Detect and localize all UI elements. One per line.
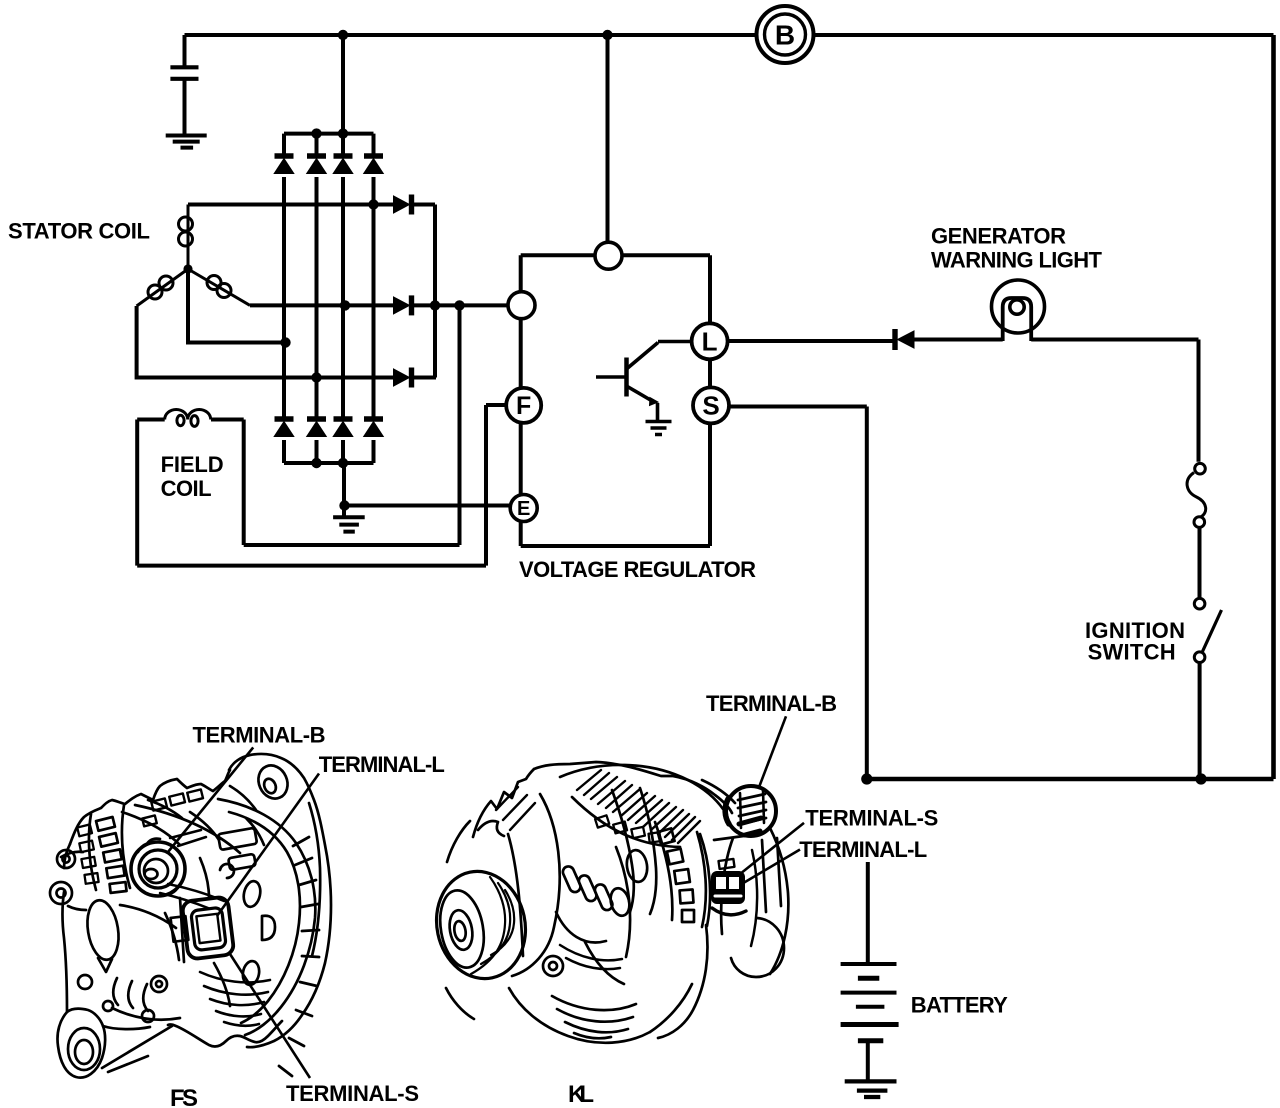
svg-text:S: S (702, 391, 719, 421)
svg-text:COIL: COIL (161, 476, 212, 501)
fs mounting ear hole (253, 761, 292, 803)
stator coil phase3 winding (right) (188, 269, 250, 305)
kl lower right lobe (731, 918, 784, 977)
svg-text:STATOR COIL: STATOR COIL (8, 219, 150, 244)
fs mid slot ladder (151, 798, 167, 810)
fs lower-left foot (57, 1009, 105, 1078)
wire rectifier vertical 4 (372, 134, 376, 463)
FS alternator drawing (50, 754, 331, 1078)
fs left bosses (57, 850, 75, 868)
wire rectifier ground stem (342, 463, 346, 516)
kl top outline (534, 762, 732, 813)
terminal B (double circle) (757, 6, 814, 63)
kl bracket arcs behind pulley (446, 821, 474, 1019)
wire rectifier bottom rail (284, 461, 374, 465)
leader line TERMINAL-L (KL) (718, 850, 800, 899)
wire v3 riser to top rail (341, 35, 345, 134)
svg-text:GENERATOR: GENERATOR (931, 224, 1066, 249)
svg-text:L: L (702, 327, 718, 357)
generator warning lamp (992, 280, 1045, 341)
node junction circle (rectifier output) (508, 292, 535, 319)
ground (battery) (845, 1081, 897, 1097)
wire E terminal to ground (345, 504, 511, 508)
KL alternator drawing (427, 762, 789, 1043)
kl stator band ladder (577, 770, 700, 843)
wire rectifier top rail (284, 132, 374, 136)
wire output node drop to field coil (244, 305, 460, 545)
diode D6 (307, 416, 326, 421)
svg-text:F: F (516, 392, 531, 420)
kl pulley (427, 863, 536, 987)
stator coil phase2 winding (left) (137, 269, 188, 306)
wire fuse to switch (1198, 527, 1202, 598)
kl terminal-B stud (726, 786, 776, 836)
field coil winding (165, 410, 211, 427)
ground (capacitor) (166, 136, 207, 148)
fs left bracket edge (63, 844, 71, 1012)
diode D4 (364, 153, 383, 158)
diode D7 (334, 416, 353, 421)
fs outer housing outline (70, 770, 230, 844)
wire stator phase1 to diode (188, 203, 393, 207)
fusible link (1187, 463, 1206, 527)
wire S terminal run (729, 407, 867, 780)
wire regulator node riser (606, 35, 610, 243)
fs lower right vents (241, 880, 262, 909)
leader line TERMINAL-B (KL) (759, 716, 786, 786)
fs rear vent slots (218, 828, 257, 850)
fs rear seam arcs (122, 805, 240, 853)
svg-text:TERMINAL-L: TERMINAL-L (319, 752, 445, 777)
svg-text:WARNING LIGHT: WARNING LIGHT (931, 248, 1103, 273)
kl middle window band (655, 822, 706, 927)
node junction circle (top of regulator) (595, 242, 622, 269)
wire diode to lamp (914, 338, 1003, 342)
ground (transistor emitter) (646, 422, 672, 435)
wire capacitor drop (183, 35, 187, 68)
svg-text:TERMINAL-B: TERMINAL-B (193, 723, 326, 748)
wire right rail (1271, 35, 1276, 779)
terminal E (510, 495, 537, 522)
diode D2 (307, 153, 326, 158)
fs lower curls (113, 978, 148, 1011)
kl front bracket face (512, 794, 560, 976)
kl stator lamination rects (595, 815, 609, 827)
fs terminal-B boss (131, 842, 185, 896)
voltage regulator box (521, 255, 710, 546)
fs rim band arcs (218, 799, 315, 1035)
leader line TERMINAL-S (KL) (725, 823, 804, 886)
svg-text:TERMINAL-L: TERMINAL-L (799, 837, 927, 862)
wire field coil box top and right (137, 420, 244, 546)
kl center arm (612, 790, 634, 912)
kl rear bracket right (770, 828, 788, 974)
fs front lobe (83, 898, 122, 962)
svg-text:BATTERY: BATTERY (911, 992, 1008, 1017)
wire capacitor to ground (183, 79, 187, 136)
svg-text:FS: FS (170, 1085, 198, 1108)
wire stator phase3 run (137, 306, 393, 378)
wire stator center tap (188, 269, 286, 343)
wire rectifier vertical 3 (341, 134, 345, 463)
wire rectifier output bus (433, 205, 437, 378)
wire battery to ground stub (866, 1041, 870, 1081)
fs window band (89, 805, 130, 890)
svg-text:FIELD: FIELD (161, 452, 224, 477)
leader line TERMINAL-S (FS) (230, 954, 310, 1078)
leader line TERMINAL-B (FS) (168, 747, 253, 852)
wire lamp to ignition corner (1031, 340, 1198, 462)
svg-text:TERMINAL-S: TERMINAL-S (805, 805, 938, 830)
kl bottom fins (552, 996, 636, 1038)
fs connector socket (182, 896, 235, 959)
transistor Q1 (596, 342, 692, 421)
ignition switch (1194, 598, 1221, 662)
terminal L (692, 323, 728, 359)
terminal S (693, 387, 729, 423)
svg-text:B: B (775, 20, 795, 51)
svg-text:TERMINAL-S: TERMINAL-S (286, 1081, 419, 1106)
wire bottom horizontal to battery node (867, 777, 1274, 781)
capacitor C1 (170, 67, 198, 79)
wire battery top lead (866, 862, 870, 964)
svg-text:VOLTAGE REGULATOR: VOLTAGE REGULATOR (519, 557, 756, 582)
fs misc strokes (165, 898, 230, 1006)
kl bottom outline (509, 988, 650, 1043)
wire rectifier vertical 2 (315, 134, 319, 463)
kl body seam (585, 847, 630, 984)
leader line TERMINAL-L (FS) (217, 774, 319, 917)
terminal F (506, 388, 541, 423)
wire field coil left loop (137, 405, 506, 566)
diode D1 (rectifier top row) (274, 156, 914, 437)
diode D8 (364, 416, 383, 421)
kl front vent fingers (561, 865, 582, 894)
kl rear top outline (702, 780, 735, 803)
svg-text:E: E (517, 498, 530, 520)
kl front bracket hatch (496, 787, 535, 830)
node junction dots (183, 30, 1206, 785)
wire stator phase2 to diode (250, 303, 393, 307)
svg-text:TERMINAL-B: TERMINAL-B (706, 691, 837, 716)
diode DB (phase2 output) (394, 297, 410, 314)
ground (rectifier) (333, 517, 365, 531)
wire diode A output to bus (413, 203, 436, 207)
diode D5 (rectifier bottom row) (275, 416, 294, 421)
diode D3 (334, 153, 353, 158)
svg-text:KL: KL (568, 1081, 594, 1108)
wire diode B output to node (413, 303, 510, 307)
kl S/L connector (711, 871, 745, 904)
wire diode C output to bus (413, 376, 437, 380)
svg-text:SWITCH: SWITCH (1088, 640, 1176, 665)
stator coil phase1 winding (179, 205, 193, 270)
battery BAT1 (841, 964, 899, 1041)
kl front bracket left outline (473, 769, 534, 837)
kl front bolt (543, 956, 563, 976)
diode D9 (warning lamp feed) (898, 331, 915, 348)
wire top rail B+ (185, 33, 1274, 37)
diode DC (phase3 output) (394, 369, 410, 386)
wire switch to bottom rail (1198, 663, 1202, 780)
fs rim fins (279, 837, 319, 1076)
wire L terminal to diode (728, 339, 893, 343)
diode DA (phase1 output) (394, 196, 410, 213)
wire rectifier vertical 1 (282, 134, 286, 463)
